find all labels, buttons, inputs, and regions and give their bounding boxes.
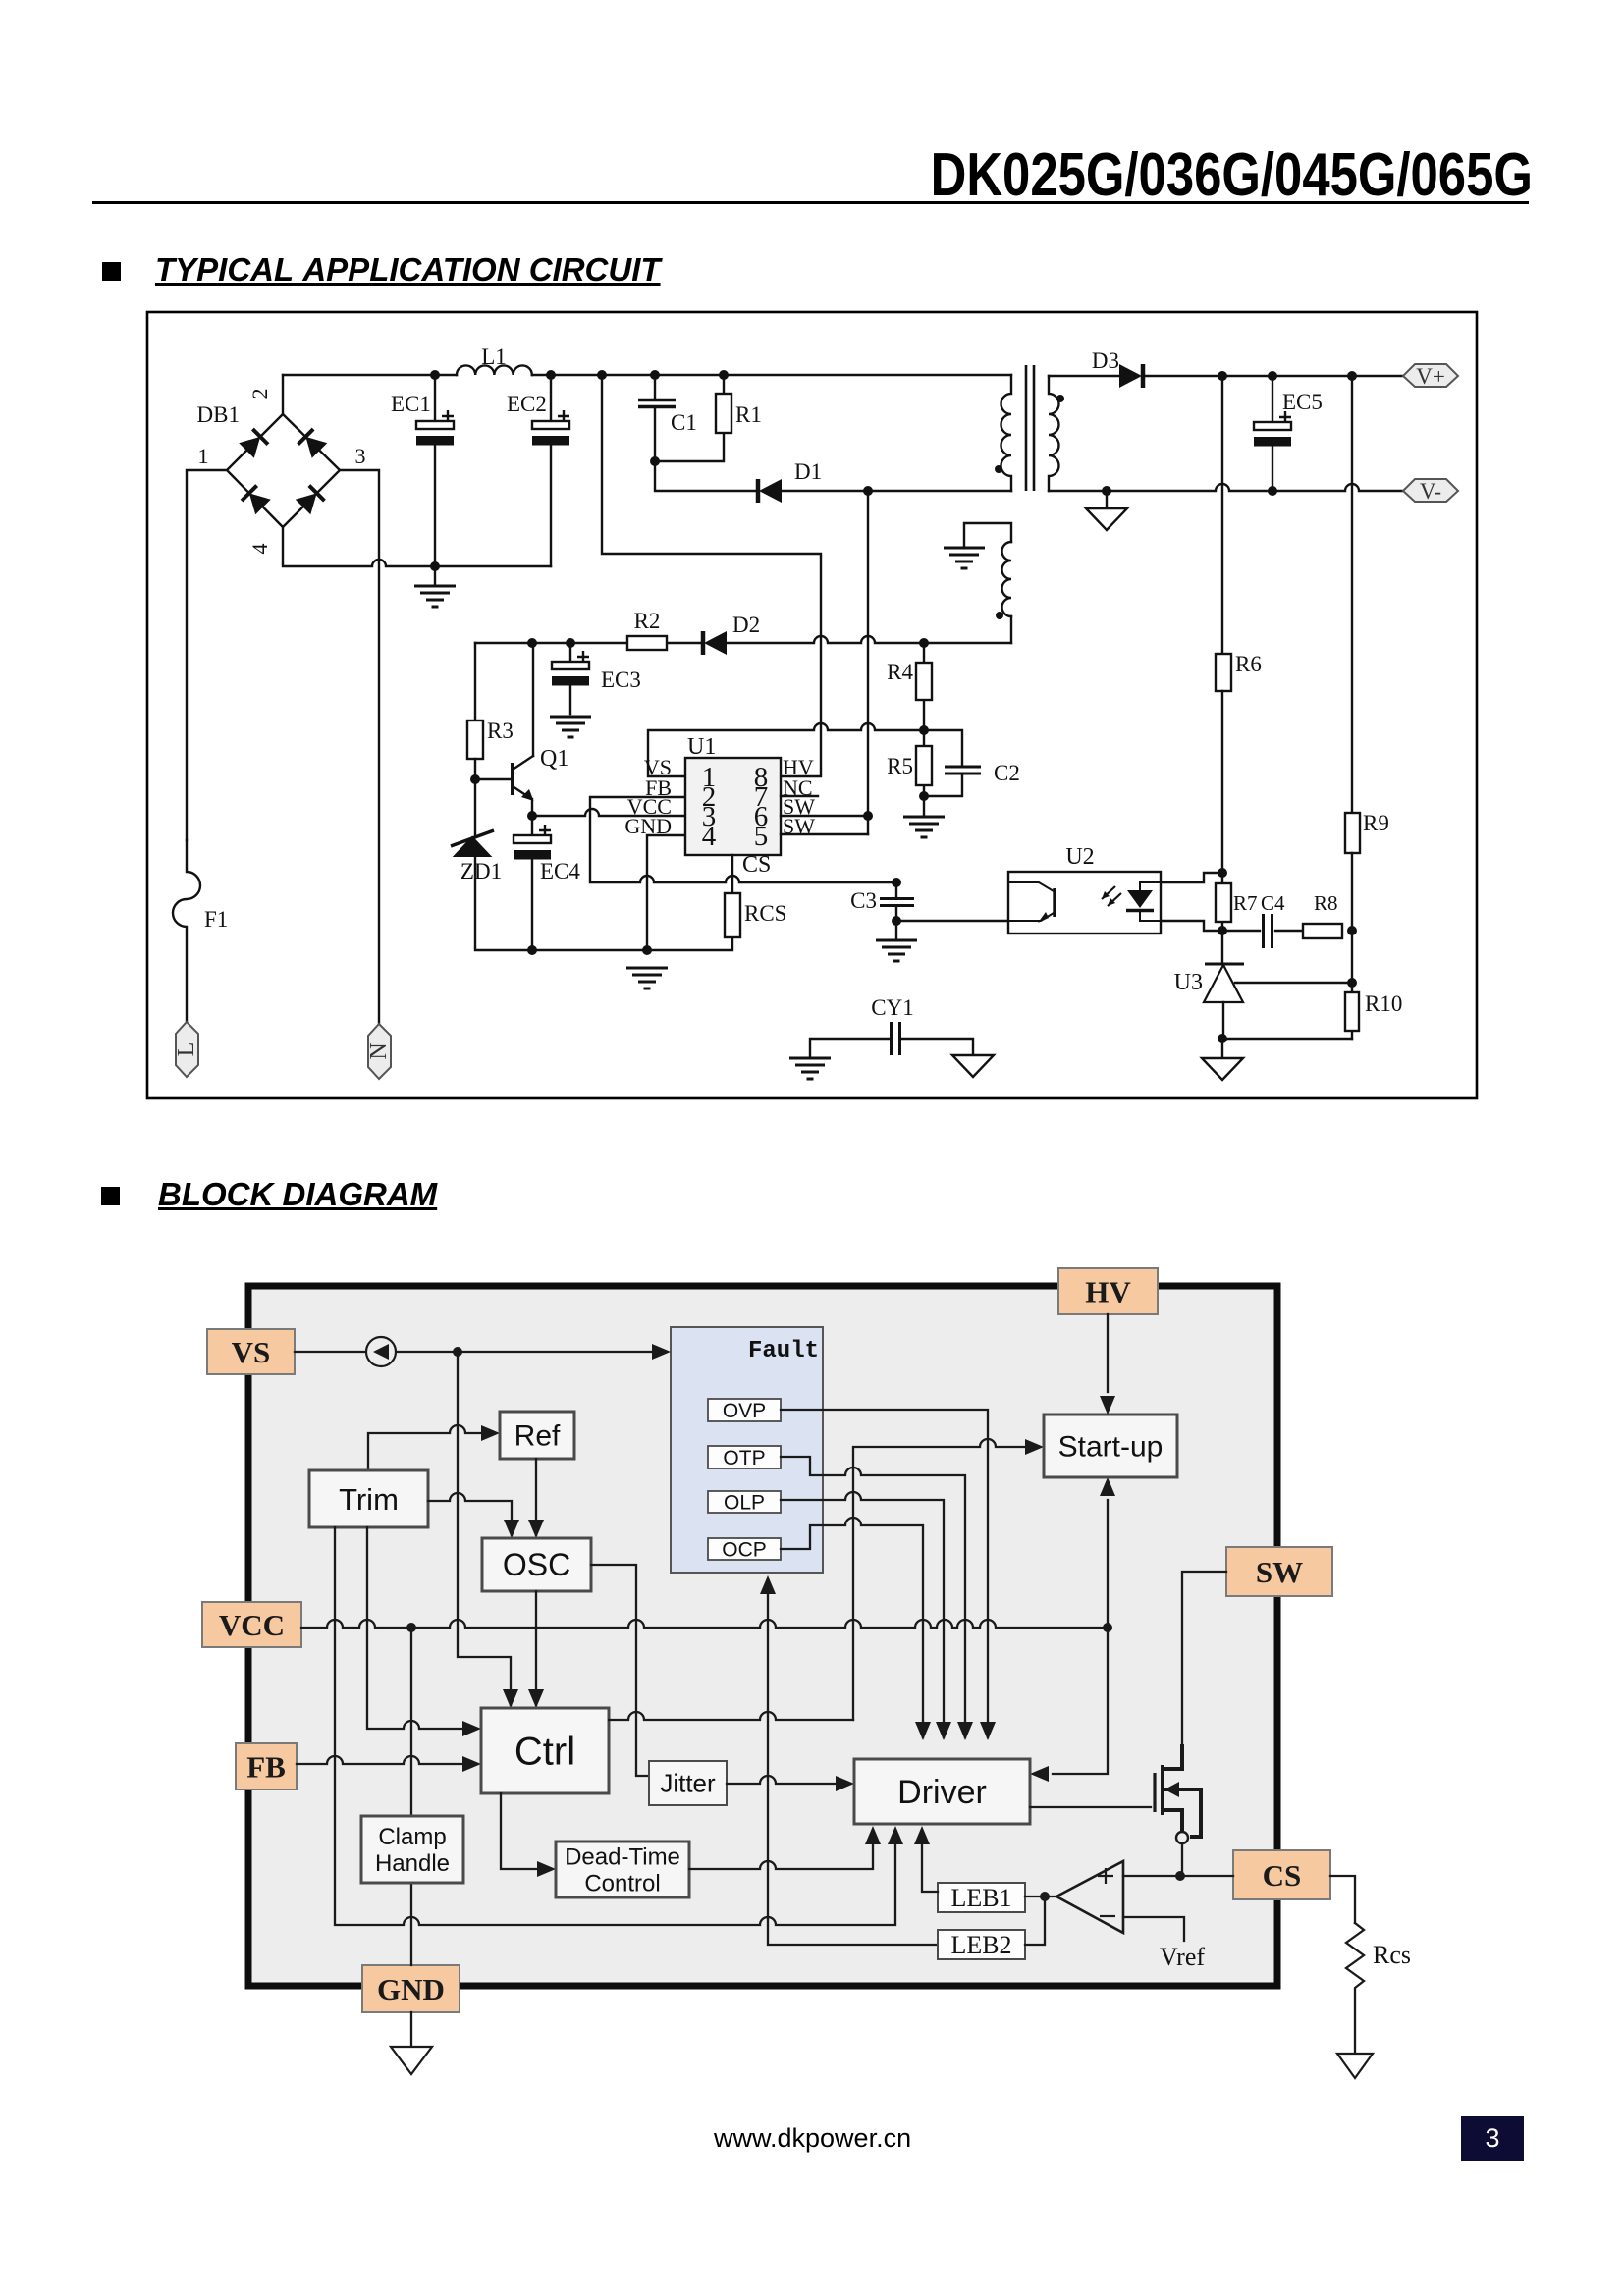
- resistor R8: [1303, 891, 1342, 938]
- block Jitter: [649, 1761, 727, 1805]
- section heading: BLOCK DIAGRAM: [158, 1176, 437, 1213]
- wire top rail right (L1 to transformer): [532, 374, 1011, 376]
- wire secondary bottom V- rail: [1049, 484, 1403, 491]
- wire base: [475, 778, 511, 780]
- wire OSC output right: [591, 1565, 649, 1776]
- wire VCC pin: [532, 809, 685, 816]
- block Start-up: [1044, 1415, 1177, 1477]
- svg-text:OLP: OLP: [724, 1491, 765, 1514]
- svg-text:VS: VS: [232, 1335, 271, 1369]
- wire comparator minus input Vref: [1123, 1917, 1184, 1941]
- capacitor C2: [924, 730, 1020, 796]
- node C3 bottom: [892, 916, 901, 926]
- node auxiliary phase dot: [996, 612, 1003, 619]
- wire R2 rail: [475, 636, 1011, 643]
- wire GND pin: [647, 835, 685, 950]
- svg-text:FB: FB: [246, 1750, 286, 1785]
- block LEB1: [938, 1883, 1025, 1912]
- wire Ref to OSC: [528, 1459, 544, 1538]
- wire VS branch to Ctrl: [458, 1352, 518, 1708]
- svg-text:Start-up: Start-up: [1058, 1431, 1164, 1464]
- wire GND lead: [410, 2012, 412, 2047]
- wire Clamp riser: [410, 1628, 412, 1965]
- wire Q1 collector riser: [532, 643, 534, 756]
- header title: [931, 140, 1533, 210]
- section heading: TYPICAL APPLICATION CIRCUIT: [155, 251, 661, 289]
- diode D1: [758, 459, 822, 503]
- node EC1 bottom: [430, 561, 440, 571]
- resistor R5: [887, 730, 932, 796]
- block OLP: [708, 1491, 781, 1514]
- capacitor CY1: [810, 995, 973, 1057]
- zener ZD1: [451, 830, 502, 883]
- node R2 rail junctions: [527, 638, 929, 648]
- capacitor EC3: [550, 643, 641, 737]
- node U3 anode junction: [1218, 1034, 1227, 1043]
- resistor Rcs zigzag: [1346, 1923, 1364, 2054]
- wire Trim to Ctrl: [367, 1527, 481, 1736]
- wire VCC to Start-up: [1100, 1477, 1115, 1628]
- node ref junction: [1347, 978, 1357, 988]
- wire divider mid: [1351, 931, 1353, 983]
- capacitor C1: [638, 375, 697, 461]
- sense circle on VS line: [366, 1337, 396, 1366]
- wire VS pin: [648, 723, 924, 776]
- wire R9 to R8 node: [1351, 853, 1353, 931]
- wire snubber to D1: [655, 461, 755, 491]
- node comparator output: [1040, 1892, 1050, 1901]
- wire Startup feed: [853, 1439, 1044, 1720]
- transformer auxiliary winding: [1002, 542, 1012, 616]
- pin label NC: [783, 775, 813, 800]
- footer url: [714, 2123, 911, 2154]
- wire NC stub: [781, 795, 818, 797]
- connector L: [174, 1022, 199, 1077]
- block LEB2: [938, 1930, 1025, 1959]
- capacitor EC4: [514, 816, 580, 950]
- pin label HV: [783, 755, 814, 779]
- svg-text:OSC: OSC: [503, 1547, 570, 1582]
- svg-text:Rcs: Rcs: [1373, 1941, 1411, 1969]
- wire bottom rail (pin4 to EC2): [283, 527, 551, 566]
- node R5 bottom: [919, 791, 929, 801]
- port HV: [1058, 1268, 1158, 1314]
- svg-text:Fault: Fault: [748, 1338, 819, 1364]
- IC outer boundary: [248, 1286, 1277, 1986]
- section bullet 1: [102, 262, 121, 281]
- wire FB to Ctrl: [297, 1756, 481, 1772]
- svg-text:Vref: Vref: [1160, 1943, 1205, 1971]
- wire zener to ground rail: [475, 856, 732, 950]
- node V+ junctions: [1218, 371, 1357, 381]
- svg-text:VCC: VCC: [219, 1608, 285, 1642]
- wire D1 to SW node: [783, 490, 868, 492]
- wire LEB1 to Driver: [914, 1826, 938, 1892]
- wire R9 drop: [1351, 376, 1353, 813]
- svg-text:Driver: Driver: [897, 1774, 987, 1811]
- block Ref: [500, 1412, 574, 1459]
- resistor R1: [655, 375, 762, 461]
- transformer secondary winding: [1049, 376, 1059, 491]
- wire comparator plus input: [1123, 1875, 1180, 1877]
- pin label SW5: [783, 814, 815, 838]
- block OCP: [708, 1538, 781, 1561]
- ground CY1 left: [789, 1058, 831, 1079]
- wire OTP to Driver: [781, 1457, 973, 1740]
- wire source to CS: [1181, 1843, 1183, 1876]
- pin label GND: [624, 814, 672, 838]
- svg-text:Ref: Ref: [514, 1420, 561, 1453]
- section bullet 2: [101, 1187, 120, 1205]
- wire FB pin: [590, 797, 896, 882]
- node secondary ground junction: [1102, 486, 1111, 496]
- wire SW pin5: [781, 833, 868, 835]
- block Fault: [671, 1327, 823, 1573]
- wire primary bottom: [868, 490, 1011, 492]
- svg-text:SW: SW: [1256, 1555, 1303, 1589]
- wire auxiliary rail to winding: [1010, 616, 1012, 643]
- node R8 junction: [1347, 926, 1357, 935]
- wire CS to port: [1180, 1875, 1233, 1877]
- wire CS external: [1330, 1876, 1355, 1923]
- block Clamp Handle: [361, 1816, 463, 1883]
- comparator: [1056, 1861, 1123, 1933]
- svg-text:GND: GND: [377, 1972, 445, 2006]
- wire Ctrl to Driver line: [609, 1712, 853, 1720]
- block OVP: [708, 1399, 781, 1422]
- transistor Q1: [513, 746, 568, 801]
- inductor L1: [457, 345, 532, 375]
- wire VCC rail: [301, 1620, 1108, 1628]
- wire HV branch from top rail: [602, 375, 821, 776]
- node VCC startup branch: [1103, 1623, 1112, 1632]
- wire DeadTime to Driver: [689, 1826, 881, 1869]
- wire OSC to Ctrl: [528, 1591, 544, 1708]
- wire Ctrl to DeadTime: [501, 1793, 556, 1877]
- capacitor C3: [850, 882, 914, 921]
- wire top rail left (bridge pin2 to L1): [283, 374, 457, 376]
- fuse F1: [173, 840, 228, 1022]
- wire C4 feed: [1222, 930, 1260, 932]
- wire R3 to base node: [474, 759, 476, 779]
- transformer primary winding: [1001, 375, 1012, 491]
- capacitor EC2: [507, 375, 569, 566]
- capacitor EC5: [1254, 376, 1323, 496]
- optocoupler U2: [1008, 844, 1161, 934]
- schematic frame: [147, 312, 1477, 1098]
- pin label FB: [645, 775, 672, 800]
- node base junction: [470, 774, 480, 784]
- ground Rcs: [1337, 2054, 1373, 2078]
- node VS branch: [453, 1347, 462, 1357]
- wire bridge pin3 to N line: [340, 470, 379, 1024]
- node primary phase dot: [995, 465, 1002, 473]
- wire LEB2 to Fault: [760, 1575, 938, 1945]
- resistor R6: [1216, 652, 1262, 691]
- wire Trim to OSC: [428, 1493, 519, 1538]
- wire SW vertical: [867, 491, 869, 834]
- transistor MOSFET: [1155, 1744, 1201, 1843]
- ground U3: [1202, 1039, 1243, 1080]
- wire opto top link: [1161, 873, 1222, 882]
- block Trim: [309, 1470, 428, 1527]
- wire bridge pin2: [282, 375, 284, 414]
- node SW top: [863, 486, 873, 496]
- resistor RCS: [725, 893, 786, 937]
- shunt regulator U3: [1174, 931, 1352, 1039]
- wire VCC to Driver: [1030, 1628, 1108, 1782]
- node SW pin junction: [863, 811, 873, 821]
- port VS: [207, 1329, 295, 1374]
- block OSC: [482, 1538, 591, 1591]
- node VCC clamp branch: [406, 1623, 416, 1632]
- block Driver: [854, 1759, 1030, 1824]
- wire opto bottom link: [1161, 921, 1222, 931]
- ground below C3: [876, 921, 917, 961]
- wire secondary top: [1049, 375, 1403, 377]
- wire gate: [1030, 1806, 1151, 1808]
- ground below GND pin: [626, 968, 668, 988]
- svg-text:Trim: Trim: [339, 1482, 399, 1517]
- svg-text:Jitter: Jitter: [660, 1769, 716, 1798]
- wire R3 riser: [474, 643, 476, 721]
- wire LEB1 comparator link: [1025, 1896, 1056, 1945]
- ground auxiliary: [944, 548, 985, 568]
- node CS junction: [1175, 1871, 1185, 1881]
- ground below EC1: [414, 566, 456, 607]
- port FB: [236, 1743, 297, 1789]
- resistor R3: [467, 719, 514, 759]
- wire U3 bottom rail: [1222, 1038, 1352, 1040]
- svg-text:OCP: OCP: [722, 1538, 767, 1561]
- wire Trim to Ref: [368, 1425, 500, 1470]
- page number box: [1461, 2116, 1524, 2161]
- pin label SW6: [783, 794, 815, 819]
- node C3 top: [892, 878, 901, 887]
- node secondary phase dot: [1056, 395, 1064, 402]
- connector V-: [1403, 479, 1458, 504]
- bridge rectifier DB1: [197, 389, 366, 555]
- port CS: [1233, 1850, 1330, 1899]
- wire OLP to Driver: [781, 1492, 951, 1740]
- wire OCP to Driver: [781, 1518, 931, 1740]
- block OTP: [708, 1446, 781, 1469]
- IC U1: [685, 734, 781, 855]
- node VS divider junction: [919, 725, 929, 735]
- svg-text:HV: HV: [1085, 1275, 1131, 1309]
- svg-text:Ctrl: Ctrl: [514, 1731, 575, 1774]
- diode D3: [1092, 348, 1143, 388]
- wire SW lead: [1182, 1572, 1226, 1744]
- wire CS pin: [731, 855, 733, 893]
- wire R6 drop: [1221, 376, 1223, 654]
- port SW: [1226, 1547, 1332, 1596]
- wire zener branch: [474, 779, 476, 836]
- node C1-R1 junction: [650, 456, 660, 466]
- capacitor C4: [1261, 891, 1285, 948]
- transformer core: [1026, 365, 1034, 491]
- node opto top junction: [1218, 868, 1227, 878]
- node VCC-emitter junction: [527, 811, 537, 821]
- wire C4 to R8: [1275, 930, 1303, 932]
- svg-text:Control: Control: [584, 1870, 660, 1896]
- connector N: [366, 1024, 392, 1079]
- port VCC: [202, 1602, 301, 1647]
- wire VS to Fault: [295, 1344, 671, 1360]
- wire bridge pin1 to L line: [187, 470, 227, 840]
- resistor R2: [627, 609, 667, 650]
- node opto bottom junction: [1218, 926, 1227, 935]
- label Vref: [1160, 1943, 1205, 1971]
- node top rail junctions: [430, 370, 729, 380]
- ground below R5: [903, 796, 945, 837]
- header rule: [92, 201, 1529, 204]
- pin label VCC: [627, 794, 672, 819]
- pin label VS: [644, 755, 672, 779]
- port GND: [362, 1965, 460, 2012]
- wire emitter to VCC node: [531, 799, 533, 816]
- wire Jitter to Driver: [727, 1776, 854, 1791]
- pin label CS: [742, 852, 771, 878]
- block DeadTime: [556, 1842, 689, 1897]
- wire auxiliary top to ground: [964, 523, 1011, 546]
- ground CY1 right: [952, 1055, 994, 1077]
- svg-text:Dead-Time: Dead-Time: [565, 1843, 680, 1870]
- wire R6 to opto node: [1221, 691, 1223, 873]
- ground GND port: [391, 2047, 432, 2074]
- resistor R9: [1345, 811, 1389, 853]
- svg-text:Handle: Handle: [375, 1850, 450, 1877]
- capacitor EC1: [391, 375, 454, 566]
- svg-text:LEB1: LEB1: [950, 1884, 1011, 1912]
- svg-text:OTP: OTP: [723, 1447, 765, 1469]
- wire SW pin6: [781, 815, 868, 817]
- resistor R4: [887, 643, 932, 730]
- resistor R10: [1345, 983, 1402, 1039]
- node ground rail junctions: [527, 945, 652, 955]
- wire C3 to opto: [896, 920, 1008, 922]
- block Ctrl: [481, 1708, 609, 1793]
- label Rcs: [1373, 1941, 1411, 1969]
- wire OVP to Driver: [781, 1410, 996, 1740]
- wire Trim long drop: [335, 1527, 903, 1925]
- svg-text:OVP: OVP: [723, 1400, 766, 1422]
- svg-text:CS: CS: [1263, 1858, 1302, 1893]
- svg-text:LEB2: LEB2: [950, 1931, 1011, 1959]
- wire HV to Start-up: [1100, 1314, 1115, 1415]
- svg-text:Clamp: Clamp: [378, 1824, 446, 1850]
- ground secondary: [1086, 491, 1127, 530]
- connector V+: [1403, 364, 1458, 389]
- diode D2: [703, 613, 760, 655]
- resistor R7: [1216, 873, 1258, 931]
